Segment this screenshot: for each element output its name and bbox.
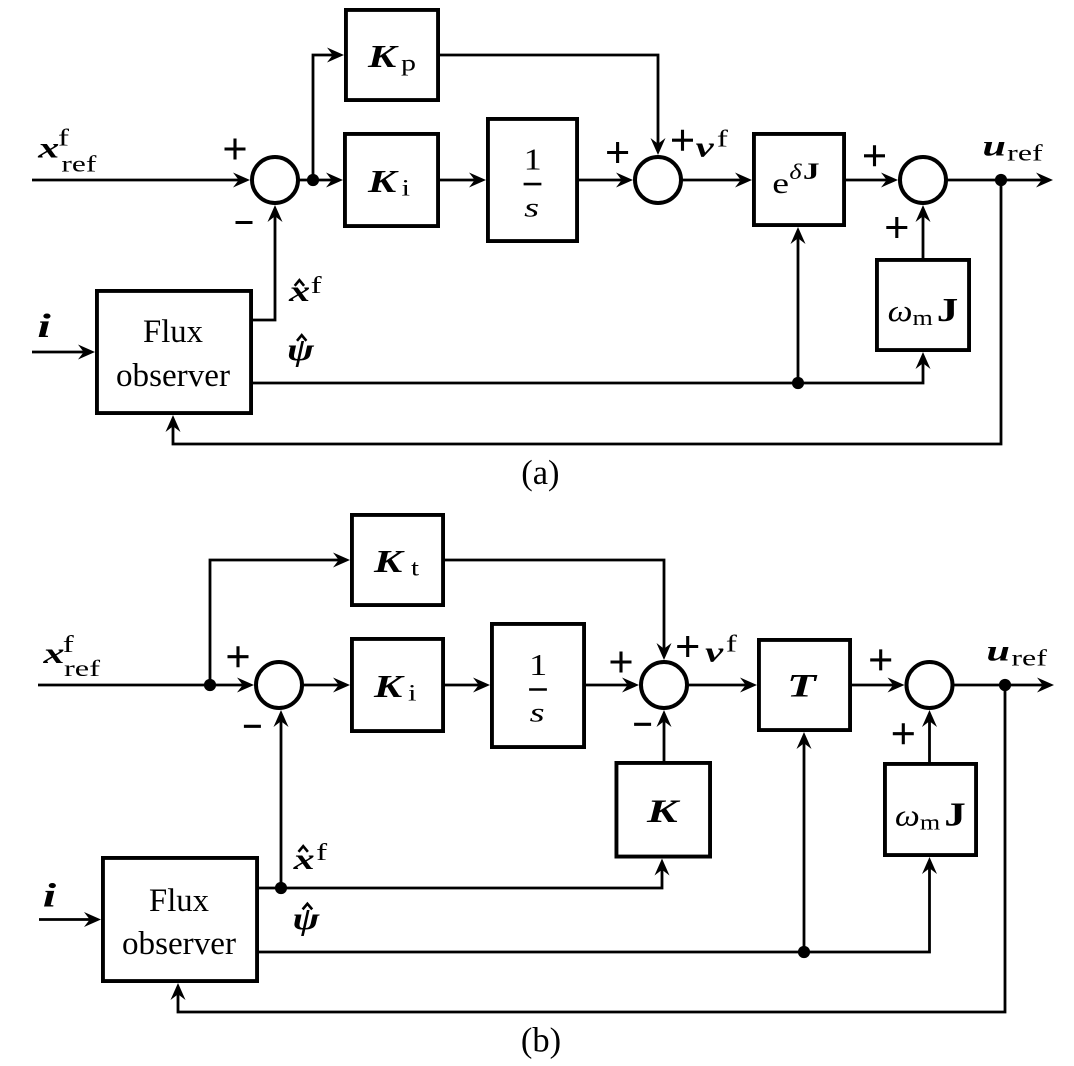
wire branch node up to Kp input bbox=[313, 55, 333, 180]
block omega_m J diagram a bbox=[877, 260, 969, 350]
wire wmJ output to S3 bottom (b) bbox=[928, 721, 931, 762]
svg-text:v: v bbox=[696, 133, 715, 164]
wire xhat to K block bottom bbox=[259, 870, 662, 888]
wire branch to Kt input bbox=[210, 560, 339, 685]
block Flux observer diagram b bbox=[103, 858, 257, 981]
plus left at S3 (b) bbox=[870, 649, 891, 670]
svg-text:J: J bbox=[944, 797, 966, 834]
svg-text:K: K bbox=[367, 163, 400, 199]
plus left at S2 (a) bbox=[607, 142, 628, 163]
svg-text:f: f bbox=[58, 126, 69, 152]
summing junction S1 (b) bbox=[256, 662, 302, 708]
svg-text:f: f bbox=[316, 840, 327, 866]
svg-text:e: e bbox=[772, 167, 789, 200]
svg-text:p: p bbox=[401, 51, 416, 76]
block integrator 1/s diagram a bbox=[488, 119, 577, 241]
plus left at S2 (b) bbox=[611, 652, 632, 673]
wire S3 to u_ref output (a) bbox=[946, 179, 1042, 182]
wire wmJ output to S3 bottom (a) bbox=[922, 216, 925, 258]
hat of psihat (a) bbox=[297, 335, 306, 341]
wire flux observer xhat to S1 bottom (a) bbox=[253, 216, 275, 320]
plus at S1 (b) bbox=[228, 646, 249, 667]
svg-text:f: f bbox=[726, 632, 737, 658]
wire Ki output to integrator (a) bbox=[440, 179, 475, 182]
node dot xhat (b) bbox=[275, 882, 287, 894]
wire x_ref input to S1 (b) bbox=[38, 684, 243, 687]
svg-text:u: u bbox=[983, 129, 1006, 162]
svg-text:ω: ω bbox=[888, 293, 913, 328]
wire integrator to S2 (a) bbox=[579, 179, 622, 182]
wire psihat branch to exp block bottom bbox=[797, 238, 800, 383]
svg-text:t: t bbox=[411, 556, 420, 581]
svg-text:1: 1 bbox=[524, 141, 542, 176]
wire S3 to u_ref output (b) bbox=[952, 684, 1043, 687]
node dot psihat (a) bbox=[792, 377, 804, 389]
svg-text:δ: δ bbox=[789, 159, 802, 184]
svg-text:J: J bbox=[803, 159, 820, 184]
svg-text:x: x bbox=[42, 637, 64, 670]
summing junction S2 (b) bbox=[641, 662, 687, 708]
plus bottom at S3 (a) bbox=[886, 217, 907, 238]
svg-text:Flux: Flux bbox=[143, 314, 203, 350]
summing junction S1 (a) bbox=[252, 157, 298, 203]
block K bbox=[616, 763, 710, 857]
minus at S1 (b) bbox=[244, 725, 261, 728]
plus top at S2 (a) bbox=[672, 130, 693, 151]
minus at S1 (a) bbox=[236, 221, 253, 224]
svg-text:(a): (a) bbox=[521, 454, 559, 492]
wire xhat branch to S1 bottom (b) bbox=[280, 721, 283, 888]
node dot u_ref (a) bbox=[995, 174, 1007, 186]
plus left at S3 (a) bbox=[864, 145, 885, 166]
svg-text:Flux: Flux bbox=[149, 883, 209, 919]
svg-text:J: J bbox=[937, 292, 959, 329]
svg-text:T: T bbox=[787, 669, 819, 705]
svg-text:i: i bbox=[43, 878, 57, 915]
node dot psihat (b) bbox=[798, 946, 810, 958]
svg-text:ref: ref bbox=[1007, 141, 1043, 166]
block Kt (gain K_t) bbox=[352, 515, 443, 605]
node dot u_ref (b) bbox=[999, 679, 1011, 691]
wire flux observer psihat to wmJ bottom (a) bbox=[253, 363, 923, 383]
plus at S1 (a) bbox=[225, 139, 246, 160]
plus bottom at S3 (b) bbox=[893, 723, 914, 744]
wire S2 to T block bbox=[687, 684, 746, 687]
plus top at S2 (b) bbox=[677, 636, 698, 657]
svg-text:i: i bbox=[37, 308, 51, 345]
hat of xhat (b) bbox=[299, 846, 308, 852]
svg-text:u: u bbox=[987, 634, 1010, 667]
block T bbox=[759, 640, 850, 730]
svg-text:ω: ω bbox=[895, 798, 920, 833]
wire S1 to Ki (b) bbox=[302, 684, 339, 687]
hat of xhat (a) bbox=[295, 280, 304, 286]
svg-text:m: m bbox=[913, 305, 933, 330]
wire S2 to exp block bbox=[681, 179, 741, 182]
block exp(delta J) bbox=[754, 134, 844, 225]
svg-text:i: i bbox=[402, 176, 411, 201]
svg-text:ref: ref bbox=[64, 656, 100, 681]
svg-text:s: s bbox=[524, 193, 539, 223]
block Kp (gain K_p) bbox=[346, 10, 438, 100]
wire T to S3 (b) bbox=[852, 684, 893, 687]
wire i input to flux observer (b) bbox=[39, 918, 90, 921]
svg-text:observer: observer bbox=[116, 358, 230, 394]
svg-text:K: K bbox=[367, 38, 400, 74]
svg-text:1: 1 bbox=[529, 647, 547, 682]
svg-text:v: v bbox=[705, 638, 724, 669]
svg-text:s: s bbox=[530, 698, 545, 728]
wire psihat branch to T bottom bbox=[803, 743, 806, 952]
node dot after S1 (a) bbox=[307, 174, 319, 186]
wire feedback u_ref to flux observer (a) bbox=[173, 180, 1001, 444]
svg-text:x: x bbox=[37, 132, 59, 165]
fraction bar 1/s (a) bbox=[524, 183, 542, 186]
wire integrator to S2 (b) bbox=[586, 684, 628, 687]
svg-text:f: f bbox=[63, 632, 74, 658]
svg-text:ref: ref bbox=[1011, 646, 1047, 671]
wire Kt output to S2 top (b) bbox=[445, 560, 664, 649]
summing junction S3 (b) bbox=[907, 662, 953, 708]
svg-text:i: i bbox=[408, 681, 417, 706]
svg-text:(b): (b) bbox=[521, 1022, 561, 1060]
svg-text:ref: ref bbox=[61, 151, 96, 176]
wire i input to flux observer (a) bbox=[32, 351, 84, 354]
minus at S2 (b) bbox=[634, 723, 651, 726]
wire K block output to S2 bottom bbox=[663, 721, 666, 761]
wire S1 to Ki (a) bbox=[298, 179, 332, 182]
wire x_ref input to S1 (a) bbox=[32, 179, 239, 182]
svg-text:f: f bbox=[717, 127, 728, 153]
wire Ki output to integrator (b) bbox=[445, 684, 479, 687]
svg-text:f: f bbox=[311, 273, 322, 299]
hat of psihat (b) bbox=[303, 904, 313, 910]
block integrator 1/s diagram b bbox=[492, 624, 584, 747]
svg-text:observer: observer bbox=[122, 926, 236, 962]
summing junction S3 (a) bbox=[900, 157, 946, 203]
block Ki (gain K_i) diagram a bbox=[345, 134, 438, 226]
svg-text:m: m bbox=[920, 810, 940, 835]
wire feedback u_ref to flux observer (b) bbox=[178, 685, 1005, 1012]
summing junction S2 (a) bbox=[635, 157, 681, 203]
fraction bar 1/s (b) bbox=[529, 688, 547, 691]
block omega_m J diagram b bbox=[885, 764, 976, 855]
wire psihat to wmJ bottom (b) bbox=[259, 868, 930, 952]
svg-text:K: K bbox=[373, 543, 406, 579]
svg-text:K: K bbox=[646, 794, 681, 830]
svg-text:K: K bbox=[373, 668, 406, 704]
wire exp block to S3 bbox=[846, 179, 887, 182]
block Flux observer diagram a bbox=[97, 291, 251, 413]
node dot x_ref branch (b) bbox=[204, 679, 216, 691]
wire Kp output to S2 top bbox=[440, 55, 658, 144]
block Ki (gain K_i) diagram b bbox=[352, 639, 443, 731]
